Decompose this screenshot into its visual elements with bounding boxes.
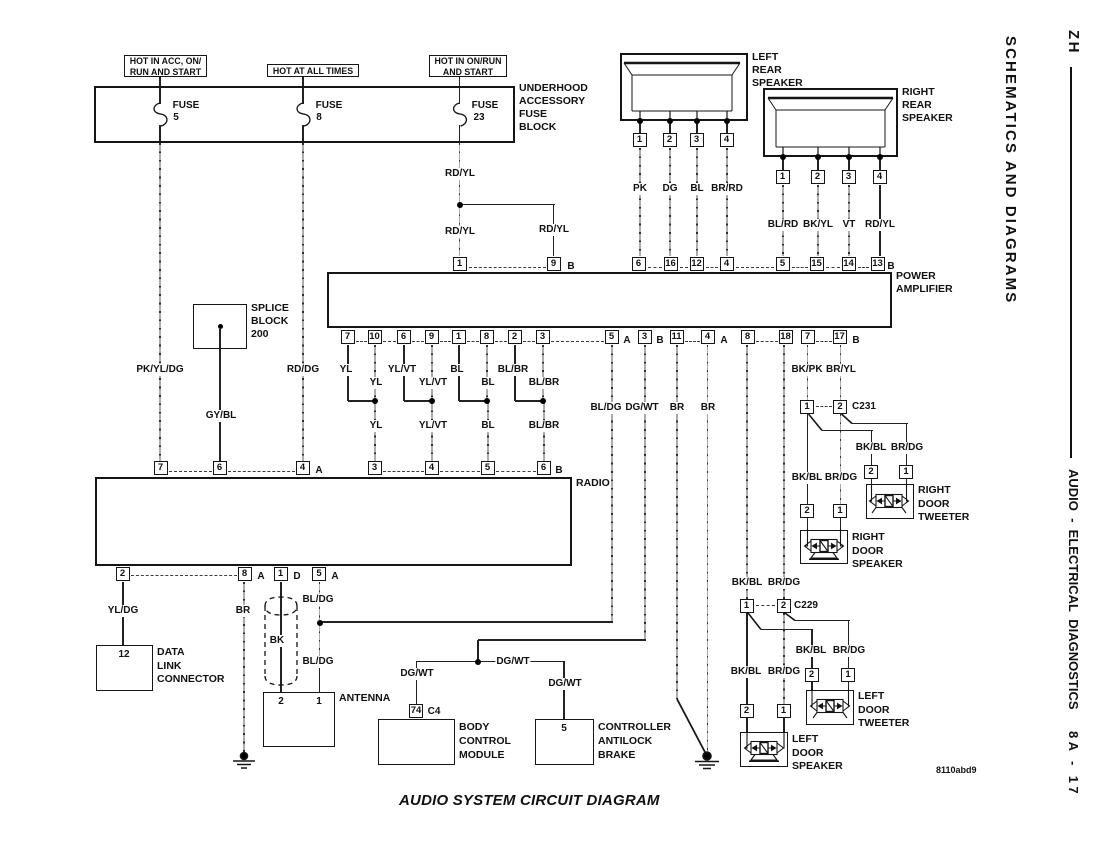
wire BR/RD wire [726,148,728,256]
wire DG/WT to antilock brake controller [563,661,565,719]
connector dash [685,341,700,342]
wire BL/BR wire right [542,345,544,401]
radio pin letter B [554,465,563,477]
radio pin letter A3 [256,571,265,583]
wire BK/BL wire C231-1 down [807,414,809,504]
wire BR wire from amp 4A [707,345,709,754]
wire DG/WT horizontal right [478,661,565,663]
label BR radio [235,605,251,617]
label controller antilock brake [598,720,671,762]
power amplifier bottom pin 6 [397,330,411,344]
radio connector dash [169,471,212,472]
label DG/WT cab [547,678,582,690]
sidebar rule [1070,67,1073,458]
node HOT IN ACC, ON/RUN AND START [124,55,207,77]
connector C231 pin 1 [800,400,814,414]
wire YL wire left [347,345,349,401]
wire BL/DG into antenna [319,667,321,692]
label DG/WT bcm [399,668,434,680]
label YL lower [369,420,384,432]
wire ld speaker pin1 stub [783,718,785,733]
label BK/BL left door speaker [730,666,763,678]
label BL [689,183,704,195]
label right door tweeter [918,484,969,525]
connector dash [648,267,662,268]
data link connector [96,645,153,691]
power amplifier top pin 12 [690,257,704,271]
right rear speaker pin 1 [776,170,790,184]
label BR/RD [710,183,744,195]
antenna [263,692,335,747]
wire BL wire left [458,345,460,401]
wire YL/VT wire merged [431,402,433,461]
power amplifier bottom pin 8 [480,330,494,344]
wire DG/WT upper horizontal [478,639,646,641]
junction left rear speaker terminal 3 [694,118,700,124]
wire DG/WT to body control module [416,661,418,704]
label BK/BL c229 [731,577,764,589]
wire lt tweeter pin1 stub [848,682,850,691]
power amplifier bottom pin 10 [368,330,382,344]
ground G2 (amplifier BR) [695,752,719,769]
wire BK/BL branch horizontal [822,430,873,432]
controller antilock brake [535,719,594,765]
label body control module [459,720,511,762]
wire ld speaker pin2 stub [746,718,748,733]
wire right rear speaker pin2 stub [817,159,819,170]
power amplifier bottom pin 5 [605,330,619,344]
label BR/DG right door tweeter [890,442,924,454]
right door tweeter pin 1 [899,465,913,479]
power amplifier bottom pin 4 [701,330,715,344]
wire BR/DG branch drop [906,423,908,465]
pin letter B conn2 [886,261,895,273]
power amplifier bottom pin 1 [452,330,466,344]
label BL/DG upper [301,594,334,606]
connector dash [858,267,869,268]
junction left rear speaker terminal 2 [667,118,673,124]
wire right rear speaker pin4 stub [879,159,881,170]
connector C231 pin 2 [833,400,847,414]
wire DG wire [669,148,671,256]
label BL upper-left [449,364,464,376]
wire YL/VT merge [404,400,432,402]
wire BK/BL branch drop [871,430,873,465]
label DG/WT inline [495,656,530,668]
wire BL merge [459,400,487,402]
underhood accessory fuse block [94,86,515,143]
radio top pin 7 [154,461,168,475]
ground G1 (radio pin 8A BR) [233,753,255,769]
wire BR/DG wire C229-2 down [783,613,785,704]
node HOT IN ON/RUN AND START [429,55,507,77]
power amplifier bottom pin 11 [670,330,684,344]
connector dash [736,267,774,268]
junction BL/DG junction [317,620,323,626]
junction right rear speaker terminal 4 [877,154,883,160]
label BL upper-right [480,377,495,389]
connector dash [467,341,479,342]
connector dash [680,267,688,268]
node HOT AT ALL TIMES [267,64,359,77]
wire tweeter pin1 stub [906,479,908,486]
label PK [632,183,648,195]
junction YL/VT junction [429,398,435,404]
title AUDIO SYSTEM CIRCUIT DIAGRAM [399,792,660,809]
power amplifier top pin 13 [871,257,885,271]
wire BK/PK wire from amp 7 [807,345,809,400]
left door tweeter pin 1 [841,668,855,682]
label YL upper-left [339,364,354,376]
connector dash [356,341,367,342]
label YL/VT upper-right [418,377,448,389]
power amplifier bottom pin 17 [833,330,847,344]
radio top pin 5 [481,461,495,475]
left rear speaker pin 3 [690,133,704,147]
junction left rear speaker terminal 1 [637,118,643,124]
junction RD/YL junction [457,202,463,208]
power amplifier U1 [327,272,892,328]
label BL/BR upper-right [528,377,561,389]
label C231 [851,401,877,413]
label BL lower [480,420,495,432]
wire BK/BL branch drop left [811,629,813,668]
power amplifier bottom pin 18 [779,330,793,344]
connector dash [383,341,396,342]
wire BR/DG branch drop left [848,620,850,668]
right door tweeter pin 2 [864,465,878,479]
label RD/DG [286,364,320,376]
BR diagonal to ground [677,699,707,755]
junction left rear speaker terminal 4 [724,118,730,124]
power amplifier bottom pin 8 [741,330,755,344]
wire antenna coax core radio pin1D [280,582,282,692]
pin letter A2 [719,335,728,347]
wire left rear speaker pin1 stub [639,123,641,133]
label C4 [427,706,442,718]
label YL upper-right [369,377,384,389]
sidebar page number 8A - 17 [1066,731,1081,797]
left door tweeter speaker symbol [811,689,850,718]
wire GY/BL splice block to radio pin6 [219,329,221,461]
power amplifier bottom pin 7 [341,330,355,344]
left door tweeter [806,690,854,725]
connector dash [756,341,778,342]
connector dash [706,267,718,268]
wire BK/YL wire [817,185,819,256]
right rear speaker pin 4 [873,170,887,184]
power amplifier top pin 9 [547,257,561,271]
wire BL/DG wire from amp 5A [611,345,613,621]
power amplifier top pin 1 [453,257,467,271]
wire rd speaker pin1 stub [840,518,842,531]
wire BL/BR wire merged [543,402,545,461]
wire BL/BR merge [515,400,543,402]
radio bottom pin 8 [238,567,252,581]
label BK/BL right door speaker [791,472,824,484]
right door speaker pin 2 [800,504,814,518]
wire RD/YL to amp pin1 [459,206,461,256]
junction right rear speaker terminal 2 [815,154,821,160]
label antenna [339,692,390,705]
wire BL/BR wire left [514,345,516,401]
label BR amp11 [669,402,685,414]
label BL/BR lower [528,420,561,432]
connector dash [551,341,604,342]
C229 crossover diagonal 2 [785,613,795,621]
label C229 [793,600,819,612]
power amplifier top pin 5 [776,257,790,271]
sidebar ZH [1065,30,1082,55]
splice block 200 [193,304,247,349]
label right rear speaker [902,86,953,125]
power amplifier bottom pin 9 [425,330,439,344]
left rear speaker pin 4 [720,133,734,147]
left door speaker speaker symbol [745,731,785,761]
label BR/DG left door tweeter [832,645,866,657]
left door speaker pin 2 [740,704,754,718]
wire PK wire [639,148,641,256]
wire RD/YL branch horizontal [460,204,555,206]
label FUSE 23 [471,100,500,112]
wire DG/WT wire from amp 3B [644,345,646,639]
radio top pin 3 [368,461,382,475]
wire PK/YL/DG fuse5 to radio pin7 [159,143,161,461]
C231 crossover diagonal 2 [842,414,853,424]
wire right rear speaker pin1 stub [782,159,784,170]
note 8110abd9 [936,765,977,775]
wire lt tweeter pin2 stub [811,682,813,691]
label splice block 200 [251,302,289,341]
radio connector dash [383,471,424,472]
wire fuse 23 lead bottom [459,125,461,141]
label BR/DG left door speaker [767,666,801,678]
right door tweeter speaker symbol [870,484,909,513]
wire DG/WT drop [477,640,479,661]
wire left rear speaker pin2 stub [669,123,671,133]
radio bottom pin 2 [116,567,130,581]
wire BR/DG wire C231-2 down [840,414,842,504]
power amplifier bottom pin 3 [536,330,550,344]
label FUSE 5 [172,100,201,112]
wire BK/BL wire from amp 8 [746,345,748,599]
power amplifier top pin 14 [842,257,856,271]
radio top pin 4 [296,461,310,475]
C231 crossover diagonal 1 [809,414,823,431]
label DG/WT amp [624,402,659,414]
wire BR wire from amp 11 [676,345,678,699]
wire YL merge [348,400,375,402]
wire BR/DG branch horizontal [852,423,908,425]
wire BR ground wire radio pin8A [243,582,245,754]
connector dash [412,341,424,342]
left rear speaker [620,53,748,121]
wire right rear speaker pin3 stub [848,159,850,170]
power amplifier bottom pin 2 [508,330,522,344]
connector dash [495,341,507,342]
label BL/BR upper-left [497,364,530,376]
left door speaker [740,732,788,767]
right door speaker speaker symbol [805,529,844,559]
junction splice block terminal [218,324,223,329]
label radio [576,477,610,490]
right rear speaker [763,88,898,157]
fuse F23 symbol [454,103,467,126]
label BK/YL [802,219,834,231]
label FUSE 8 [315,100,344,112]
label YL/VT lower [418,420,448,432]
connector dash [523,341,535,342]
wire BL/DG wire radio pin5A [319,582,321,622]
label PK/YL/DG [135,364,184,376]
junction DG/WT junction [475,659,481,665]
left door tweeter pin 2 [805,668,819,682]
pin letter B2 [851,335,860,347]
wire YL/VT wire left [403,345,405,401]
wire left rear speaker pin4 stub [726,123,728,133]
connector C229 pin 1 [740,599,754,613]
wire RD/YL to amp pin9 [553,205,555,256]
wire tweeter pin2 stub [871,479,873,486]
label left door speaker [792,733,843,774]
left door speaker pin 1 [777,704,791,718]
right rear speaker pin 2 [811,170,825,184]
wire BL wire right [486,345,488,401]
wire stub hot2 to fuse block [302,77,304,86]
label BR/DG right door speaker [824,472,858,484]
body control module [378,719,455,765]
label VT [842,219,857,231]
pin letter B [655,335,664,347]
label antenna pin 2 [277,696,285,708]
wire YL/VT wire right [431,345,433,401]
right door speaker [800,530,848,564]
connector dash [469,267,546,268]
connector C229 pin 2 [777,599,791,613]
label BR/DG c229 [767,577,801,589]
right door speaker pin 1 [833,504,847,518]
left rear speaker pin 2 [663,133,677,147]
power amplifier top pin 15 [810,257,824,271]
radio bottom pin 5 [312,567,326,581]
label BR/YL [825,364,857,376]
wire BL wire merged [487,402,489,461]
label BR amp4A [700,402,716,414]
label data link connector pin 12 [117,649,130,661]
radio pin letter A [314,465,323,477]
wire fuse 5 lead bottom [159,125,161,141]
radio connector dash [440,471,480,472]
label RD/YL upper [444,168,476,180]
right rear speaker symbol [762,88,899,159]
fuse F5 symbol [154,103,167,126]
wire RD/DG fuse8 to radio pin4A [302,143,304,461]
wire rd speaker pin2 stub [807,518,809,531]
junction right rear speaker terminal 3 [846,154,852,160]
power amplifier top pin 16 [664,257,678,271]
sidebar AUDIO - ELECTRICAL DIAGNOSTICS [1066,469,1081,710]
power amplifier top pin 6 [632,257,646,271]
label antilock brake pin 5 [560,723,568,735]
wire YL/DG wire radio pin2 [122,582,124,645]
label fuse 8 value [315,112,323,124]
label RD/YL left [444,226,476,238]
label fuse 5 value [172,112,180,124]
fuse F8 symbol [297,103,310,126]
label BL/RD [767,219,800,231]
C229 connector dash [756,605,775,606]
label RD/YL right [538,224,570,236]
right door tweeter [866,484,914,519]
right rear speaker pin 3 [842,170,856,184]
label left rear speaker [752,51,803,90]
junction right rear speaker terminal 1 [780,154,786,160]
wire BL/RD wire [782,185,784,256]
C231 connector dash [816,406,832,407]
label GY/BL [205,410,238,422]
power amplifier top pin 4 [720,257,734,271]
wire BK/BL wire C229-1 down [746,613,748,704]
label underhood accessory fuse block [519,82,588,134]
label YL/VT upper-left [387,364,417,376]
label YL/DG [107,605,140,617]
junction BL/BR junction [540,398,546,404]
wire RD/YL wire right rear [879,185,881,256]
wire fuse 8 lead bottom [302,125,304,141]
connector dash [792,267,808,268]
wire left rear speaker pin3 stub [696,123,698,133]
sidebar SCHEMATICS AND DIAGRAMS [1002,36,1019,304]
radio top pin 4 [425,461,439,475]
power amplifier bottom pin 3 [638,330,652,344]
wire BR/YL wire from amp 17B [840,345,842,400]
wire YL wire merged [374,402,376,461]
label fuse 23 value [472,112,485,124]
C229 crossover diagonal 1 [748,613,761,630]
radio top pin 6 [213,461,227,475]
antenna coax shield [265,597,297,615]
wire BL wire [696,148,698,256]
left rear speaker symbol [619,53,749,123]
wire fuse 8 lead top [302,88,304,104]
junction BL junction [484,398,490,404]
connector dash [440,341,451,342]
radio pin letter D [292,571,301,583]
label BL/DG lower [301,656,334,668]
connector dash [826,267,840,268]
wire YL wire right [374,345,376,401]
wire RD/YL fuse23 down [459,143,461,204]
wire BK/BL branch horizontal left [761,629,813,631]
pin letter B conn [566,261,575,273]
left rear speaker pin 1 [633,133,647,147]
radio U2 [95,477,572,566]
label DG [662,183,679,195]
radio bottom connector dash [131,575,237,576]
label data link connector [157,646,224,687]
wire stub hot3 to fuse block [459,77,461,86]
label antenna pin 1 [315,696,323,708]
wire BL/DG wire to antenna [319,623,321,667]
body control module pin 74 [409,704,423,718]
radio connector dash [496,471,536,472]
radio connector dash [228,471,295,472]
connector dash [816,341,832,342]
label left door tweeter [858,690,909,731]
wire fuse 23 lead top [459,88,461,104]
label BK/BL right door tweeter [855,442,888,454]
junction YL junction [372,398,378,404]
